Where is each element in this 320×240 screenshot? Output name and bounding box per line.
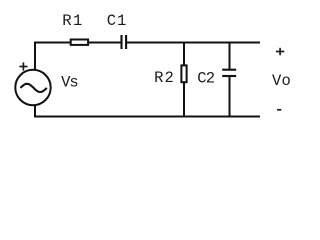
- capacitor C1 plate left: [120, 35, 122, 49]
- voltage source Vs sine wave: [20, 84, 46, 92]
- svg-text:C1: C1: [107, 12, 127, 30]
- wire C2 top lead: [229, 42, 231, 70]
- wire R1 to C1 left plate: [88, 42, 121, 44]
- label + of output Vo (plus sign): [276, 48, 284, 55]
- capacitor C2 plate top: [222, 69, 236, 71]
- wire top rail left segment (source node to R1): [35, 42, 71, 44]
- resistor R1: [71, 40, 88, 45]
- svg-text:Vs: Vs: [61, 74, 79, 92]
- voltage source Vs circle: [15, 70, 50, 105]
- resistor R2: [181, 65, 186, 82]
- label - of output Vo (minus sign): [277, 109, 281, 111]
- capacitor C1 plate right: [125, 35, 127, 49]
- label + of source Vs (plus sign): [19, 62, 27, 70]
- wire left vertical from top rail down to Vs top: [34, 42, 36, 71]
- svg-text:C2: C2: [197, 70, 215, 88]
- svg-text:R2: R2: [154, 69, 174, 87]
- capacitor C2 plate bottom: [222, 75, 236, 77]
- svg-text:Vo: Vo: [272, 72, 291, 90]
- svg-text:R1: R1: [62, 12, 82, 30]
- wire R2 top lead: [183, 42, 185, 67]
- wire R2 bottom lead: [183, 83, 185, 118]
- wire C1 right plate to output + terminal: [127, 42, 260, 44]
- wire C2 bottom lead: [229, 76, 231, 118]
- wire bottom rail: [34, 116, 260, 118]
- wire from Vs bottom to bottom rail: [34, 105, 36, 118]
